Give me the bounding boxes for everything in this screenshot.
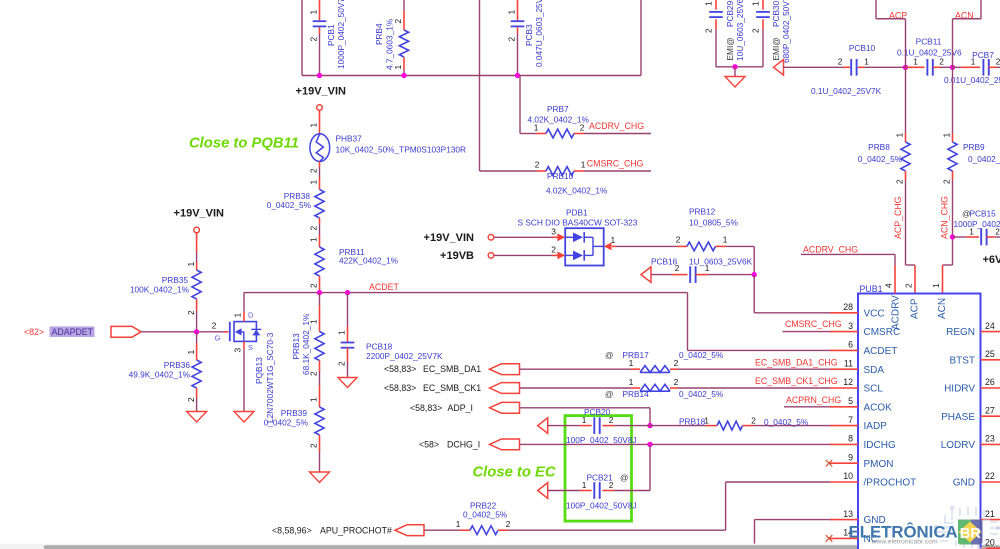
svg-text:4.7_0603_1%: 4.7_0603_1%	[385, 18, 395, 70]
junction node PCB18	[345, 290, 350, 295]
svg-text:27: 27	[985, 405, 995, 415]
port EC_SMB_CK1	[490, 383, 520, 394]
svg-text:0_0402_5%: 0_0402_5%	[968, 154, 1000, 164]
svg-text:BR: BR	[960, 526, 982, 542]
svg-text:ACP: ACP	[910, 298, 921, 319]
svg-text:S: S	[248, 343, 253, 352]
capacitor PCB21	[547, 473, 650, 511]
svg-text:<8,58,96>: <8,58,96>	[272, 525, 312, 535]
svg-text:1000P_0402_50V: 1000P_0402_50V	[954, 219, 1000, 229]
svg-text:12: 12	[843, 377, 853, 387]
svg-text:0_0402_5%: 0_0402_5%	[679, 389, 724, 399]
junction node ADAPDET/PRB35	[194, 329, 199, 334]
wire PCB21 riser	[649, 444, 651, 490]
wire top-left box right vertical	[640, 0, 642, 76]
svg-text:1: 1	[723, 235, 728, 245]
wire PCB29-PCB30 bottom link	[716, 66, 763, 68]
resistor PRB9	[942, 133, 1000, 185]
svg-text:1: 1	[337, 330, 347, 335]
svg-text:PCB11: PCB11	[916, 36, 942, 46]
wire to PRB35	[196, 233, 198, 252]
port ADP_I	[490, 402, 520, 413]
svg-text:2: 2	[309, 37, 319, 42]
svg-text:+6VA: +6VA	[983, 254, 1000, 266]
junction node PCB1/bus	[317, 73, 322, 78]
svg-text:11: 11	[844, 358, 853, 368]
junction node ACN/ACline	[950, 65, 955, 70]
svg-text:ACDET: ACDET	[864, 346, 898, 357]
svg-text:PRB9: PRB9	[963, 142, 985, 152]
op-amp U1 charger IC PUB1 body	[858, 294, 981, 549]
svg-text:APU_PROCHOT#: APU_PROCHOT#	[320, 525, 392, 535]
pin BTST pin 25	[981, 359, 1000, 361]
svg-text:2: 2	[309, 443, 319, 448]
svg-text:1: 1	[309, 237, 319, 242]
resistor PRB35	[130, 270, 201, 299]
svg-text:D: D	[248, 311, 254, 320]
svg-text:PRB14: PRB14	[623, 389, 650, 399]
svg-text:LODRV: LODRV	[941, 440, 976, 451]
resistor PRB36	[129, 332, 202, 412]
wire GND pin 13	[755, 519, 831, 521]
svg-text:2: 2	[904, 283, 914, 288]
junction node DCHG/PCB21	[647, 442, 652, 447]
svg-text:1: 1	[931, 283, 941, 288]
svg-text:HIDRV: HIDRV	[944, 384, 975, 395]
resistor PRB22	[452, 501, 511, 535]
pin VCC pin 28	[830, 312, 858, 314]
svg-text:PMON: PMON	[864, 459, 894, 470]
svg-text:4.02K_0402_1%: 4.02K_0402_1%	[528, 115, 590, 125]
svg-text:23: 23	[985, 434, 995, 444]
no-connect X PMON	[826, 460, 833, 467]
wire ACP down to PRB8	[905, 67, 907, 133]
svg-text:3: 3	[551, 227, 556, 237]
wire DCHG_I to IDCHG pin	[520, 443, 831, 445]
resistor PRB13	[291, 293, 324, 385]
svg-text:@: @	[605, 389, 613, 399]
svg-text:IADP: IADP	[864, 421, 888, 432]
svg-text:PRB35: PRB35	[162, 275, 189, 285]
wire PRB17 to SDA pin	[678, 368, 830, 370]
svg-text:100K_0402_1%: 100K_0402_1%	[130, 285, 190, 295]
svg-text:2: 2	[186, 310, 196, 315]
svg-text:3: 3	[232, 348, 242, 353]
svg-text:1: 1	[232, 313, 242, 318]
svg-text:1: 1	[895, 133, 905, 138]
svg-text:1: 1	[507, 10, 517, 15]
pin PHASE pin 27	[981, 415, 1000, 417]
svg-text:10_0805_5%: 10_0805_5%	[689, 217, 739, 227]
pin P21 pin 21	[981, 519, 1000, 521]
pin P20 pin 20	[981, 547, 1000, 549]
svg-text:28: 28	[843, 302, 853, 312]
svg-text:PCB3: PCB3	[524, 24, 534, 46]
wire ACP entry from top	[875, 0, 877, 19]
svg-text:2: 2	[676, 235, 681, 245]
svg-text:SCL: SCL	[864, 384, 884, 395]
port APU_PROCHOT#	[395, 525, 424, 536]
capacitor PCB1	[309, 0, 346, 76]
port ADAPDET input	[111, 326, 141, 337]
wire ACN to IC pin	[952, 180, 954, 265]
svg-text:0_0402_5%: 0_0402_5%	[463, 509, 508, 519]
watermark BR logo	[958, 520, 983, 545]
svg-text:9: 9	[848, 452, 853, 462]
svg-text:PRB8: PRB8	[868, 142, 890, 152]
svg-text:DCHG_I: DCHG_I	[447, 439, 480, 449]
svg-text:0_0402_5%: 0_0402_5%	[267, 200, 312, 210]
svg-text:1: 1	[913, 56, 918, 66]
pin GND pin 13	[830, 519, 858, 521]
resistor PRB12	[676, 206, 739, 251]
svg-text:2: 2	[535, 160, 540, 170]
wire PRB7 vertical from bus	[519, 76, 521, 134]
capacitor PCB20	[547, 407, 650, 445]
junction node PRB11/PRB13	[317, 290, 322, 295]
svg-text:@: @	[620, 473, 628, 483]
ground PQB13 source	[234, 412, 254, 423]
resistor PRB39	[264, 385, 324, 472]
svg-text:2: 2	[309, 283, 319, 288]
resistor PRB14	[605, 377, 724, 399]
svg-text:PCB20: PCB20	[584, 407, 611, 417]
svg-text:22: 22	[985, 471, 995, 481]
net name ADAPDET highlighted	[50, 326, 95, 337]
svg-text:1: 1	[186, 350, 196, 355]
capacitor PCB18	[337, 293, 443, 378]
pin GND pin 22	[981, 481, 1000, 483]
svg-text:PRB7: PRB7	[547, 104, 569, 114]
svg-text:20: 20	[985, 537, 995, 547]
svg-text:ADAPDET: ADAPDET	[52, 327, 94, 337]
svg-text:PCB7: PCB7	[972, 50, 994, 60]
pin IDCHG pin 8	[830, 443, 858, 445]
port DCHG_I	[490, 439, 520, 450]
svg-text:ACPRN_CHG: ACPRN_CHG	[786, 395, 841, 405]
svg-text:/PROCHOT: /PROCHOT	[864, 478, 917, 489]
svg-text:2: 2	[996, 56, 1000, 66]
svg-text:REGN: REGN	[946, 327, 975, 338]
scrollbar track	[0, 544, 1000, 549]
svg-text:PCB29: PCB29	[725, 0, 735, 27]
svg-text:2: 2	[895, 179, 905, 184]
svg-text:Close to EC: Close to EC	[473, 465, 556, 481]
svg-text:PRB12: PRB12	[689, 206, 716, 216]
svg-text:2: 2	[393, 19, 403, 24]
svg-text:PRB36: PRB36	[164, 360, 191, 370]
junction node EMI ground	[732, 64, 737, 69]
svg-text:0_0402_5%: 0_0402_5%	[858, 154, 903, 164]
svg-text:1: 1	[186, 262, 196, 267]
svg-text:SDA: SDA	[864, 365, 885, 376]
svg-text:+19V_VIN: +19V_VIN	[296, 86, 347, 98]
svg-text:G: G	[215, 334, 221, 343]
svg-text:EC_SMB_CK1: EC_SMB_CK1	[423, 383, 481, 393]
svg-text:@: @	[605, 350, 613, 360]
pin ACOK pin 5	[830, 406, 858, 408]
svg-text:3: 3	[848, 321, 853, 331]
svg-text:PCB1: PCB1	[326, 24, 336, 46]
svg-text:1: 1	[703, 1, 713, 6]
svg-text:1: 1	[309, 10, 319, 15]
svg-text:1: 1	[309, 123, 319, 128]
portal arrow PCB20	[538, 418, 548, 434]
svg-text:PCB30: PCB30	[771, 0, 781, 27]
svg-text:ACN: ACN	[937, 298, 948, 319]
svg-text:ACDRV: ACDRV	[891, 295, 902, 330]
svg-text:L2N7002WT1G_SC70-3: L2N7002WT1G_SC70-3	[265, 332, 275, 423]
transistor PQB13 MOSFET	[212, 293, 275, 423]
svg-text:2: 2	[309, 226, 319, 231]
resistor PRB11	[315, 247, 399, 276]
svg-text:PHASE: PHASE	[941, 412, 975, 423]
wire +19VB to PDB1 pin2	[494, 254, 552, 256]
wire EC_SMB_CK1 to PRB14	[520, 387, 632, 389]
resistor PRB17	[605, 350, 724, 372]
svg-text:ACN_CHG: ACN_CHG	[940, 196, 950, 239]
svg-text:<58,83>: <58,83>	[410, 403, 442, 413]
svg-text:VCC: VCC	[864, 308, 885, 319]
diode PDB1 dual schottky	[518, 207, 638, 265]
svg-text:PHB37: PHB37	[336, 134, 363, 144]
resistor PRB7	[528, 104, 590, 138]
svg-text:PCB16: PCB16	[651, 256, 678, 266]
svg-text:PRB18: PRB18	[679, 417, 706, 427]
svg-text:4.02K_0402_1%: 4.02K_0402_1%	[546, 186, 608, 196]
svg-text:13: 13	[843, 509, 853, 519]
resistor PRB18	[650, 416, 809, 431]
svg-text:0.047U_0603_25V7K: 0.047U_0603_25V7K	[534, 0, 544, 67]
svg-text:0_0402_5%: 0_0402_5%	[264, 418, 309, 428]
svg-text:2: 2	[750, 28, 760, 33]
svg-text:680P_0402_50V7K: 680P_0402_50V7K	[781, 0, 791, 63]
wire top-left box left vertical	[301, 0, 303, 76]
pin /PROCHOT pin 10	[830, 481, 858, 483]
resistor PRB8	[858, 133, 910, 185]
capacitor PCB7	[944, 50, 1000, 85]
svg-text:21: 21	[985, 509, 995, 519]
ground PCB18	[338, 378, 357, 388]
svg-text:S SCH DIO BAS40CW SOT-323: S SCH DIO BAS40CW SOT-323	[518, 217, 638, 227]
junction node ADP/PCB20/PRB18	[647, 423, 652, 428]
wire EC_SMB_DA1 to PRB17	[520, 368, 632, 370]
pin stub ACDRV pin 4	[894, 266, 896, 294]
junction node ACP/ACline	[903, 65, 908, 70]
svg-text:100P_0402_50V8J: 100P_0402_50V8J	[566, 500, 637, 510]
svg-text:1: 1	[309, 397, 319, 402]
capacitor PCB15	[953, 208, 1000, 245]
svg-text:0_0402_5%: 0_0402_5%	[679, 350, 724, 360]
pin LODRV pin 23	[981, 443, 1000, 445]
wire ACDET elbow to IC	[687, 293, 689, 351]
svg-text:1: 1	[864, 56, 869, 66]
svg-text:PRB13: PRB13	[291, 333, 301, 360]
svg-text:CMSRC_CHG: CMSRC_CHG	[587, 158, 644, 168]
svg-text:<58>: <58>	[419, 439, 439, 449]
svg-text:PUB1: PUB1	[860, 284, 883, 294]
annotation green box	[565, 416, 632, 521]
wire PCB10 to ACP node	[865, 66, 906, 68]
svg-text:PRB10: PRB10	[547, 171, 574, 181]
svg-text:+19V_VIN: +19V_VIN	[424, 232, 475, 244]
pin HIDRV pin 26	[981, 387, 1000, 389]
thermistor PHB37	[310, 134, 466, 162]
pin IADP pin 7	[830, 425, 858, 427]
portal arrow PCB16	[641, 267, 651, 283]
svg-text:PCB21: PCB21	[587, 473, 614, 483]
wire +19V_VIN to PDB1 pin3	[494, 236, 552, 238]
resistor PRB10	[535, 160, 608, 196]
svg-text:IDCHG: IDCHG	[864, 440, 896, 451]
capacitor PCB11	[897, 36, 962, 75]
svg-text:1: 1	[942, 133, 952, 138]
svg-text:10K_0402_50%_TPM0S103P130R: 10K_0402_50%_TPM0S103P130R	[336, 145, 467, 155]
svg-text:PCB15: PCB15	[970, 208, 997, 218]
pin SCL pin 12	[830, 387, 858, 389]
junction node VCC net	[752, 272, 757, 277]
node circle +19VB	[488, 253, 494, 259]
wire ACN entry from top	[980, 0, 982, 19]
svg-text:2: 2	[186, 397, 196, 402]
svg-text:2: 2	[751, 416, 756, 426]
wire +19V_VIN top bus horizontal	[302, 75, 641, 77]
svg-text:ACDRV_CHG: ACDRV_CHG	[589, 121, 644, 131]
svg-text:24: 24	[985, 321, 995, 331]
capacitor PCB10	[811, 43, 882, 96]
svg-text:CMSRC_CHG: CMSRC_CHG	[785, 319, 842, 329]
svg-text:<82>: <82>	[24, 327, 44, 337]
wire PRB22 to PROCHOT riser	[508, 529, 726, 531]
svg-text:2: 2	[337, 361, 347, 366]
svg-text:PCB10: PCB10	[849, 43, 876, 53]
svg-text:PQB13: PQB13	[254, 357, 264, 384]
svg-text:2: 2	[551, 245, 556, 255]
svg-text:EC_SMB_DA1_CHG: EC_SMB_DA1_CHG	[755, 357, 838, 367]
wire AC line left segment	[783, 66, 843, 68]
svg-text:<58,83>: <58,83>	[384, 383, 416, 393]
wire PRB11 to ACDET node	[319, 276, 321, 293]
watermark circuit pattern	[935, 506, 1000, 548]
pin PMON pin 9	[830, 462, 858, 464]
capacitor PCB30	[750, 0, 791, 67]
wire PRB14 to SCL pin	[678, 387, 830, 389]
wire from top at x=479.5 down to PRB10	[479, 0, 481, 171]
svg-text:8: 8	[848, 434, 853, 444]
svg-text:1: 1	[750, 1, 760, 6]
wire PHB37 to PRB38	[319, 162, 321, 168]
svg-text:5: 5	[848, 396, 853, 406]
svg-text:1: 1	[456, 519, 461, 529]
no-connect X pin 14	[826, 535, 833, 542]
svg-text:1: 1	[581, 160, 586, 170]
svg-text:2: 2	[939, 56, 944, 66]
svg-text:2: 2	[942, 179, 952, 184]
svg-text:1: 1	[393, 65, 403, 70]
pin CMSRC pin 3	[830, 331, 858, 333]
wire PROCHOT elbow	[726, 481, 830, 483]
svg-text:0.1U_0402_25V7K: 0.1U_0402_25V7K	[811, 86, 882, 96]
svg-text:1: 1	[611, 235, 616, 245]
wire ACP to IC pin	[905, 180, 907, 265]
svg-text:EC_SMB_DA1: EC_SMB_DA1	[423, 364, 481, 374]
svg-text:PRB4: PRB4	[374, 23, 384, 45]
wire to PHB37	[319, 111, 321, 136]
wire CMSRC_CHG net stub	[584, 170, 651, 172]
capacitor PCB3	[507, 0, 544, 76]
svg-text:ACDET: ACDET	[369, 282, 399, 292]
wire VCC to IC pin 28	[753, 275, 755, 313]
wire ACN down to PRB9	[952, 67, 954, 133]
svg-text:EC_SMB_CK1_CHG: EC_SMB_CK1_CHG	[755, 376, 838, 386]
ground EMI caps	[734, 67, 736, 77]
svg-text:+19VB: +19VB	[440, 250, 474, 262]
svg-text:2200P_0402_25V7K: 2200P_0402_25V7K	[366, 351, 443, 361]
wire APU to PRB22	[424, 529, 452, 531]
pin REGN pin 24	[981, 331, 1000, 333]
svg-text:2: 2	[506, 519, 511, 529]
capacitor PCB16	[651, 256, 755, 283]
wire ACDRV_CHG net stub	[584, 133, 651, 135]
portal arrow PCB21	[538, 483, 548, 499]
svg-text:PRB39: PRB39	[281, 408, 308, 418]
pin ACDET pin 6	[830, 349, 858, 351]
svg-text:68.1K_0402_1%: 68.1K_0402_1%	[301, 313, 311, 375]
portal arrow AC line	[774, 60, 784, 76]
svg-text:PRB17: PRB17	[623, 350, 650, 360]
junction node PCB3/bus	[515, 73, 520, 78]
wire PRB38 to PRB11	[319, 218, 321, 224]
svg-text:10U_0603_25V6: 10U_0603_25V6	[735, 0, 745, 61]
svg-text:PDB1: PDB1	[566, 207, 588, 217]
svg-text:7: 7	[848, 415, 853, 425]
svg-text:1: 1	[309, 180, 319, 185]
svg-text:www.eletronicabr.com: www.eletronicabr.com	[871, 539, 938, 546]
svg-text:ACOK: ACOK	[864, 402, 893, 413]
resistor PRB4	[374, 0, 409, 76]
svg-text:ADP_I: ADP_I	[448, 403, 473, 413]
svg-text:4: 4	[884, 283, 894, 288]
wire PDB1 to PRB12	[616, 245, 677, 247]
resistor PRB38	[267, 190, 324, 219]
pin NC pin 14	[830, 537, 858, 539]
svg-text:2: 2	[674, 377, 679, 387]
svg-text:2: 2	[212, 321, 217, 331]
pin stub ACP pin 2	[914, 265, 916, 294]
svg-text:1: 1	[629, 377, 634, 387]
pin stub ACN pin 1	[942, 265, 944, 294]
wire ADP_I elbow	[520, 407, 651, 409]
svg-text:6: 6	[848, 340, 853, 350]
svg-text:2: 2	[703, 28, 713, 33]
ground PRB39	[310, 472, 330, 483]
junction node ACN/PCB15	[950, 234, 955, 239]
svg-text:GND: GND	[953, 478, 975, 489]
node circle +19V_VIN diode	[488, 235, 494, 241]
svg-text:49.9K_0402_1%: 49.9K_0402_1%	[129, 370, 191, 380]
svg-text:2: 2	[507, 37, 517, 42]
scrollbar thumb	[44, 545, 1000, 549]
svg-text:26: 26	[985, 377, 995, 387]
svg-text:ACDRV_CHG: ACDRV_CHG	[803, 244, 858, 254]
node +19V_VIN circle left	[194, 227, 200, 233]
port EC_SMB_DA1	[490, 364, 520, 375]
svg-text:ACP_CHG: ACP_CHG	[893, 196, 903, 239]
svg-text:2: 2	[309, 168, 319, 173]
wire PRB12 to VCC corner	[726, 245, 754, 247]
svg-text:EMI@: EMI@	[725, 37, 735, 60]
svg-text:25: 25	[985, 349, 995, 359]
